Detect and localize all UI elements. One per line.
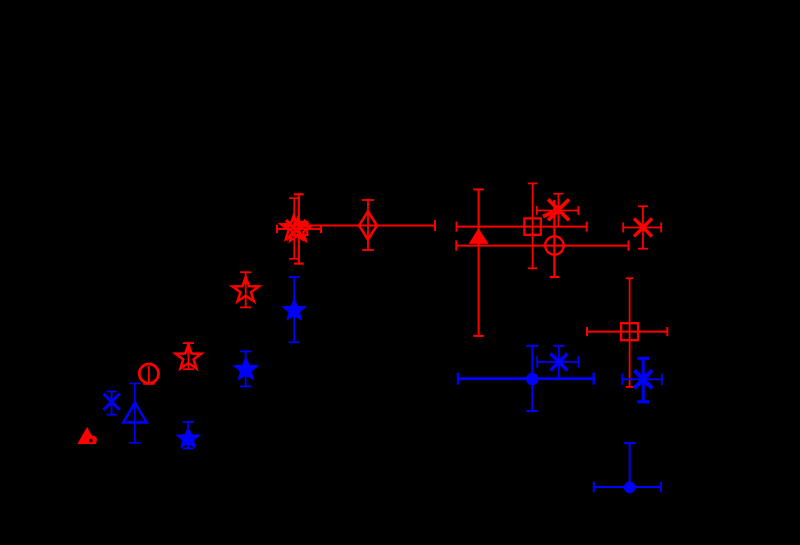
error bar: cluster horizontal xyxy=(277,225,321,233)
error bar: asterisk G vertical xyxy=(638,206,648,248)
filled triangle marker L xyxy=(77,427,96,444)
error bar: filled triangle vertical xyxy=(473,189,484,336)
X cross marker P xyxy=(104,394,120,410)
filled triangle marker xyxy=(469,228,489,244)
error bar: circle U horizontal xyxy=(594,482,661,493)
open star marker I xyxy=(232,277,259,301)
error bar: star M vertical xyxy=(289,277,300,342)
asterisk marker R xyxy=(550,354,567,371)
error bar: diamond vertical xyxy=(362,200,374,250)
small open circle overlapping L xyxy=(88,436,97,445)
open square marker H xyxy=(621,323,638,340)
asterisk marker G xyxy=(634,219,652,237)
error bar: diamond horizontal xyxy=(286,220,435,231)
open star marker (cluster, first) xyxy=(281,215,307,239)
error bar: star O vertical xyxy=(183,422,194,449)
error bar: square D vertical xyxy=(528,183,538,268)
open circle marker F xyxy=(545,236,563,254)
error bar: circle F vertical xyxy=(550,200,560,277)
open triangle marker Q xyxy=(123,403,146,423)
filled star marker N xyxy=(234,358,258,380)
error bar: square H vertical xyxy=(626,278,634,387)
filled circle marker S xyxy=(526,373,539,386)
error bar: cross P vertical xyxy=(107,392,117,415)
asterisk marker T xyxy=(634,370,652,388)
error bar: asterisk T horizontal xyxy=(622,374,662,386)
error bar: square H horizontal xyxy=(587,327,667,336)
error bar: square D horizontal xyxy=(457,222,587,232)
asterisk marker E xyxy=(543,199,569,222)
error bar: asterisk E horizontal xyxy=(537,206,579,215)
error bar: circle S horizontal xyxy=(458,373,594,385)
error bar: star J vertical xyxy=(183,343,194,369)
error bar: circle F horizontal xyxy=(456,240,628,250)
open star marker J xyxy=(176,345,202,369)
error bar: star N vertical xyxy=(240,351,252,386)
open square marker (cluster) xyxy=(294,222,307,235)
open diamond marker xyxy=(359,211,377,239)
error bar: cluster vertical 2 xyxy=(294,194,304,263)
error bar: asterisk R vertical xyxy=(553,346,565,378)
error bar: triangle Q vertical xyxy=(129,384,141,443)
open circle marker K xyxy=(139,364,158,383)
error bar: asterisk E vertical xyxy=(553,194,563,227)
open star marker (cluster, second) xyxy=(285,217,311,241)
error bar: asterisk T vertical xyxy=(637,358,649,402)
error bar: circle S vertical xyxy=(526,346,538,411)
error bar: asterisk G horizontal xyxy=(623,223,661,233)
error bar: star I vertical xyxy=(240,272,251,307)
open square marker D xyxy=(524,218,540,234)
error bar: cluster vertical 1 xyxy=(289,198,299,259)
filled star marker O xyxy=(177,428,200,448)
error bar: asterisk R horizontal xyxy=(537,356,578,368)
filled star marker M xyxy=(283,299,306,319)
error bar: circle U vertical xyxy=(624,443,636,487)
asterisk marker (cluster) xyxy=(286,220,306,240)
error bar: circle K vertical xyxy=(143,366,155,384)
filled circle marker U xyxy=(624,482,636,494)
